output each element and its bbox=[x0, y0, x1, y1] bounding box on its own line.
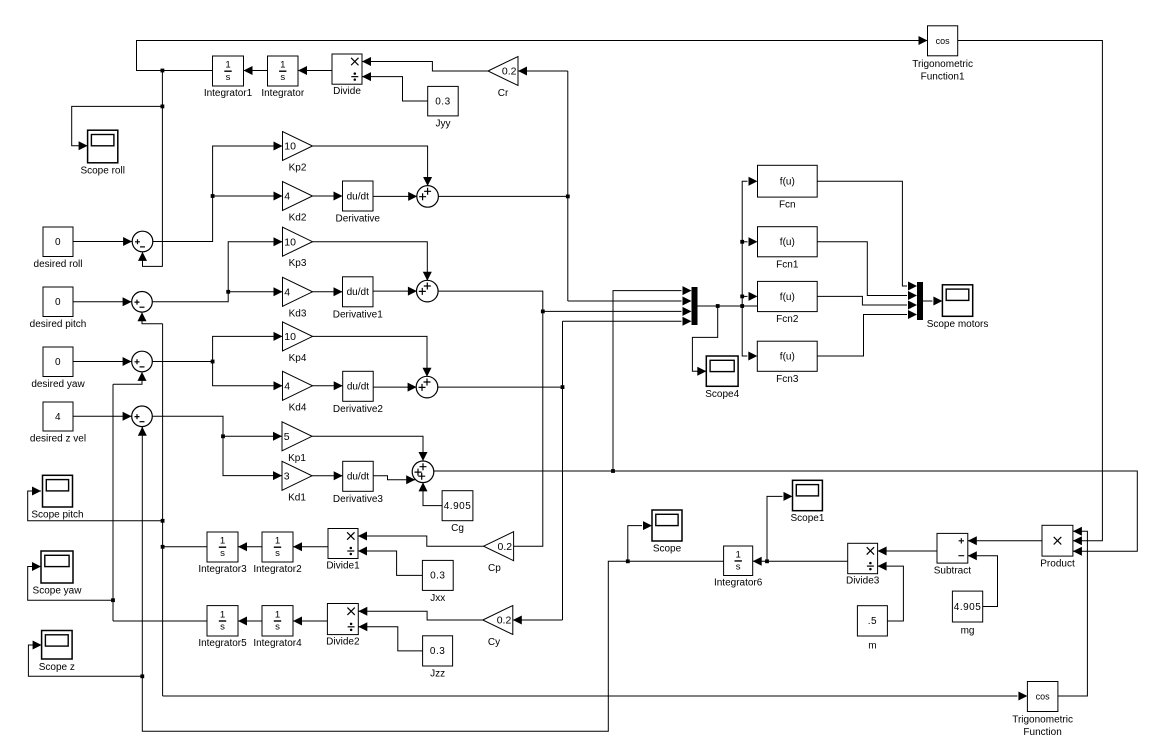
svg-text:Scope motors: Scope motors bbox=[927, 319, 989, 330]
wire roll PD output to vertical bbox=[438, 195, 568, 197]
wire thrust output to Product input 3 bbox=[433, 471, 1137, 551]
svg-text:4: 4 bbox=[55, 412, 61, 423]
wire branch to Kd2 bbox=[213, 195, 283, 197]
svg-text:Scope: Scope bbox=[653, 544, 682, 555]
svg-text:Kd2: Kd2 bbox=[289, 213, 307, 224]
wire Cg to z PD sum bottom bbox=[423, 483, 442, 506]
svg-text:Cg: Cg bbox=[451, 523, 464, 534]
svg-text:0.2: 0.2 bbox=[497, 615, 512, 627]
wire roll angle to Scope roll bbox=[72, 106, 163, 145]
gain block Kp4 10 bbox=[283, 322, 313, 364]
svg-text:Derivative3: Derivative3 bbox=[333, 494, 383, 505]
svg-text:f(u): f(u) bbox=[780, 237, 795, 248]
wire roll torque vertical bbox=[567, 71, 569, 301]
wire branch up to Scope1 bbox=[767, 496, 783, 561]
fcn block Fcn2 bbox=[758, 281, 818, 325]
svg-text:Cp: Cp bbox=[488, 563, 501, 574]
wire pitch feedback into sum bottom bbox=[142, 312, 163, 324]
wire yaw feedback into sum bottom bbox=[113, 372, 142, 384]
scope block Scope pitch bbox=[31, 475, 83, 520]
sum block yaw error bbox=[132, 351, 153, 372]
sum block yaw PD bbox=[416, 376, 438, 398]
gain block Cy 0.2 bbox=[483, 606, 513, 649]
wire Derivative2 to yaw PD sum bbox=[373, 386, 416, 388]
svg-text:1: 1 bbox=[275, 536, 280, 547]
gain block Kd4 4 bbox=[283, 371, 313, 413]
wire pitch error to Kd3/Kp3 bbox=[152, 242, 282, 302]
svg-text:Fcn3: Fcn3 bbox=[776, 374, 799, 385]
svg-text:Kd3: Kd3 bbox=[289, 308, 307, 319]
wire Integrator3 output joins pitch vertical bbox=[163, 546, 207, 548]
wire Kp4 to yaw PD sum top bbox=[313, 336, 428, 376]
svg-text:f(u): f(u) bbox=[780, 177, 795, 188]
wire yaw angle vertical bbox=[112, 384, 114, 621]
wire yaw PD output to vertical bbox=[437, 386, 562, 388]
wire Cy output to Divide2 x input bbox=[358, 611, 483, 620]
wire thrust to mux input 1 bbox=[613, 291, 682, 471]
svg-text:Jxx: Jxx bbox=[430, 593, 445, 604]
wire mux to Scope motors bbox=[923, 300, 932, 302]
svg-text:du/dt: du/dt bbox=[347, 287, 369, 298]
svg-text:desired yaw: desired yaw bbox=[31, 379, 85, 390]
svg-text:Derivative1: Derivative1 bbox=[333, 309, 383, 320]
svg-text:du/dt: du/dt bbox=[347, 382, 369, 393]
integrator block Integrator6 bbox=[714, 546, 763, 589]
wire z error to Kp1/Kd1 bbox=[152, 416, 282, 436]
svg-text:Kd4: Kd4 bbox=[289, 402, 307, 413]
svg-text:Scope1: Scope1 bbox=[790, 513, 824, 524]
wire branch down to Fcn3 bbox=[742, 306, 747, 356]
svg-text:0.3: 0.3 bbox=[430, 571, 445, 582]
gain block Kd1 3 bbox=[282, 461, 312, 503]
wire yaw error to Kp4/Kd4 bbox=[152, 361, 212, 363]
integrator block Integrator4 bbox=[253, 606, 302, 649]
sum block roll error bbox=[132, 231, 153, 252]
wire branch to Fcn1 bbox=[742, 241, 747, 243]
svg-text:4: 4 bbox=[284, 286, 290, 298]
wire mg to Subtract minus input bbox=[968, 556, 998, 607]
svg-text:Kd1: Kd1 bbox=[288, 492, 306, 503]
sum block roll PD bbox=[417, 186, 439, 208]
sum block z error bbox=[132, 406, 153, 427]
svg-text:Integrator: Integrator bbox=[261, 88, 304, 99]
svg-text:0: 0 bbox=[55, 297, 61, 308]
wire branch to Kd3 bbox=[228, 291, 282, 293]
svg-text:Scope yaw: Scope yaw bbox=[33, 586, 83, 597]
svg-text:0.2: 0.2 bbox=[502, 66, 517, 78]
svg-text:Scope roll: Scope roll bbox=[80, 165, 124, 176]
svg-text:3: 3 bbox=[284, 470, 290, 482]
wire Kp1 to z PD sum top bbox=[312, 436, 423, 461]
svg-text:4.905: 4.905 bbox=[444, 501, 472, 512]
svg-text:5: 5 bbox=[284, 431, 290, 443]
fcn block Fcn3 bbox=[757, 341, 817, 385]
wire m to Divide3 / input bbox=[878, 566, 904, 621]
wire Fcn2 to motor mux input 3 bbox=[817, 296, 907, 305]
svg-text:Function: Function bbox=[1023, 727, 1061, 738]
svg-text:Function1: Function1 bbox=[921, 72, 965, 83]
svg-text:mg: mg bbox=[961, 626, 975, 637]
svg-text:s: s bbox=[280, 72, 285, 83]
divide block Divide1 bbox=[326, 529, 360, 572]
svg-text:1: 1 bbox=[275, 609, 280, 620]
svg-text:1: 1 bbox=[220, 609, 225, 620]
constant block desired roll 0 bbox=[34, 227, 83, 270]
svg-text:desired roll: desired roll bbox=[34, 259, 83, 270]
gain block Kp3 10 bbox=[283, 227, 313, 269]
svg-text:Derivative: Derivative bbox=[336, 214, 381, 225]
constant block desired pitch 0 bbox=[30, 287, 87, 330]
svg-text:desired z vel: desired z vel bbox=[30, 434, 86, 445]
wire Integrator4 to Integrator5 bbox=[238, 620, 262, 622]
svg-text:Trigonometric: Trigonometric bbox=[1012, 715, 1073, 726]
wire yaw torque vertical bbox=[562, 321, 564, 620]
wire Fcn1 to motor mux input 2 bbox=[817, 242, 907, 296]
sum block pitch error bbox=[132, 292, 153, 313]
sum block pitch PD bbox=[417, 280, 439, 302]
wire z feedback into sum bottom bbox=[141, 427, 143, 431]
svg-text:10: 10 bbox=[284, 141, 296, 153]
mux block Mux bbox=[692, 287, 698, 325]
gain block Kd2 4 bbox=[283, 182, 313, 224]
wire branch down to Kd4 bbox=[213, 362, 283, 386]
svg-text:1: 1 bbox=[735, 549, 740, 560]
wire Kd3 to Derivative1 bbox=[313, 291, 343, 293]
wire Kp2 to roll PD sum top bbox=[313, 146, 428, 186]
constant block desired z vel 4 bbox=[30, 402, 86, 445]
gain block Cp 0.2 bbox=[484, 532, 514, 574]
wire roll feedback vertical down to roll sum bbox=[143, 71, 163, 267]
constant block m .5 bbox=[857, 606, 887, 652]
svg-text:1: 1 bbox=[225, 60, 230, 71]
svg-text:4: 4 bbox=[284, 191, 290, 203]
integrator block Integrator3 bbox=[198, 532, 247, 575]
derivative block Derivative bbox=[336, 181, 381, 225]
mux output wire bbox=[698, 305, 758, 307]
svg-text:Integrator5: Integrator5 bbox=[198, 638, 247, 649]
svg-text:desired pitch: desired pitch bbox=[30, 319, 87, 330]
integrator block Integrator2 bbox=[253, 532, 302, 575]
svg-text:1: 1 bbox=[280, 60, 285, 71]
fcn block Fcn1 bbox=[758, 227, 818, 271]
svg-text:Kp2: Kp2 bbox=[289, 163, 307, 174]
wire Cp output to Divide1 x input bbox=[358, 536, 484, 546]
mux block motors bbox=[917, 282, 923, 320]
wire Fcn3 to motor mux input 4 bbox=[817, 315, 907, 357]
wire Fcn to motor mux input 1 bbox=[817, 181, 907, 286]
svg-text:Trigonometric: Trigonometric bbox=[912, 59, 973, 70]
gain block Kp1 5 bbox=[282, 422, 312, 464]
divide block Divide3 bbox=[846, 543, 880, 586]
wire Divide1 to Integrator2 bbox=[293, 546, 328, 548]
wire Kp3 to pitch PD sum top bbox=[313, 242, 428, 281]
svg-text:0.3: 0.3 bbox=[435, 96, 450, 107]
wire Kd4 to Derivative2 bbox=[313, 385, 343, 387]
svg-text:f(u): f(u) bbox=[780, 352, 795, 363]
wire branch to mux input 3 bbox=[543, 310, 682, 312]
svg-text:Integrator2: Integrator2 bbox=[253, 564, 302, 575]
svg-text:Integrator6: Integrator6 bbox=[714, 578, 763, 589]
svg-text:du/dt: du/dt bbox=[347, 472, 369, 483]
wire Divide2 to Integrator4 bbox=[293, 620, 327, 622]
svg-text:s: s bbox=[736, 562, 741, 573]
scope block Scope z bbox=[39, 631, 75, 674]
svg-text:s: s bbox=[275, 622, 280, 633]
wire Integrator6 output down and left to z feedback bbox=[142, 427, 723, 731]
svg-text:Jzz: Jzz bbox=[430, 669, 445, 680]
svg-text:Divide2: Divide2 bbox=[326, 637, 360, 648]
scope block Scope bbox=[652, 510, 682, 555]
svg-text:cos: cos bbox=[936, 36, 951, 46]
constant block Cg 4.905 bbox=[442, 491, 473, 535]
gain block Kd3 4 bbox=[283, 277, 313, 319]
wire yaw torque to mux input 4 bbox=[563, 320, 682, 322]
svg-text:Subtract: Subtract bbox=[934, 566, 971, 577]
wire Jzz to Divide2 / input bbox=[358, 627, 422, 651]
wire Product to Subtract plus input bbox=[968, 540, 1042, 542]
svg-text:s: s bbox=[226, 72, 231, 83]
svg-text:Divide3: Divide3 bbox=[846, 576, 880, 587]
derivative block Derivative3 bbox=[333, 461, 383, 505]
svg-text:Integrator3: Integrator3 bbox=[198, 564, 247, 575]
gain block Kp2 10 bbox=[283, 132, 313, 174]
divide block Divide bbox=[332, 54, 362, 97]
wire branch to Scope z bbox=[28, 645, 142, 676]
scope block Scope1 bbox=[790, 480, 824, 524]
trigonometric block Trigonometric Function1 cos bbox=[912, 26, 973, 83]
svg-text:Integrator1: Integrator1 bbox=[204, 88, 253, 99]
svg-text:Derivative2: Derivative2 bbox=[333, 404, 383, 415]
svg-text:Scope4: Scope4 bbox=[705, 389, 739, 400]
wire Integrator to Integrator1 bbox=[244, 70, 268, 72]
wire control bus vertical feeding Fcn blocks bbox=[742, 181, 747, 306]
wire pitch angle vertical bbox=[162, 324, 164, 696]
junction on Integrator1 output bbox=[161, 69, 165, 73]
scope block Scope roll bbox=[80, 130, 124, 176]
svg-text:Cr: Cr bbox=[498, 88, 509, 99]
wire desired yaw to sum bbox=[73, 361, 132, 363]
wire branch down to Scope4 bbox=[692, 306, 717, 371]
wire pitch angle to Trigonometric Function bbox=[163, 695, 1018, 697]
wire cos output up to Product input 2 bbox=[1058, 531, 1088, 696]
wire Kd2 to Derivative bbox=[313, 195, 343, 197]
svg-text:.5: .5 bbox=[868, 616, 877, 627]
wire Integrator2 to Integrator3 bbox=[238, 546, 262, 548]
scope block Scope yaw bbox=[33, 551, 83, 597]
svg-text:Divide: Divide bbox=[333, 86, 361, 97]
svg-text:du/dt: du/dt bbox=[347, 191, 369, 202]
subtract block Subtract bbox=[934, 533, 971, 576]
wire Kd1 to Derivative3 bbox=[312, 475, 343, 477]
wire roll error to Kp2/Kd2 bbox=[153, 146, 283, 242]
svg-text:Fcn: Fcn bbox=[779, 200, 796, 211]
wire desired pitch to sum bbox=[73, 301, 132, 303]
constant block desired yaw 0 bbox=[31, 347, 85, 390]
integrator I1 output wire to top + corner bbox=[137, 41, 928, 71]
svg-text:s: s bbox=[220, 622, 225, 633]
wire yaw torque to Cy bbox=[513, 619, 563, 621]
svg-text:Cy: Cy bbox=[488, 637, 500, 648]
svg-text:s: s bbox=[220, 548, 225, 559]
wire cos1 output down right side to Product input 1 bbox=[958, 41, 1103, 541]
svg-text:cos: cos bbox=[1036, 692, 1051, 702]
wire branch up to Kp4 bbox=[213, 336, 283, 361]
scope block Scope motors bbox=[927, 285, 989, 330]
integrator block Integrator5 bbox=[198, 606, 247, 649]
svg-text:Product: Product bbox=[1040, 559, 1075, 570]
wire branch down to Kd1 bbox=[223, 436, 282, 475]
divide block Divide2 bbox=[326, 604, 360, 648]
wire Derivative3 to z PD sum with jog bbox=[373, 476, 415, 480]
svg-text:Divide1: Divide1 bbox=[326, 561, 360, 572]
svg-text:4.905: 4.905 bbox=[954, 602, 982, 613]
svg-text:m: m bbox=[868, 641, 876, 652]
svg-text:Kp1: Kp1 bbox=[288, 453, 306, 464]
integrator block Integrator1 bbox=[204, 56, 253, 99]
wire Divide to Integrator bbox=[298, 70, 332, 72]
wire from roll torque vertical into Cr bbox=[518, 70, 568, 72]
derivative block Derivative2 bbox=[333, 371, 383, 415]
wire pitch PD output down to Cp and mux input 3 bbox=[438, 291, 543, 546]
svg-text:Scope pitch: Scope pitch bbox=[31, 510, 83, 521]
wire to Scope yaw bbox=[28, 567, 113, 601]
svg-text:f(u): f(u) bbox=[780, 292, 795, 303]
constant block Jzz 0.3 bbox=[423, 636, 453, 680]
svg-text:1: 1 bbox=[220, 536, 225, 547]
wire branch to Fcn2 bbox=[749, 292, 758, 301]
wire Integrator5 output to yaw vertical bbox=[113, 620, 207, 622]
svg-text:Integrator4: Integrator4 bbox=[253, 638, 302, 649]
wire Divide3 to Integrator6 bbox=[753, 560, 848, 562]
wire z velocity to Scope bbox=[628, 526, 642, 562]
wire to Scope pitch bbox=[28, 491, 163, 521]
wire Derivative1 to pitch PD sum bbox=[373, 290, 417, 292]
svg-text:0: 0 bbox=[55, 357, 61, 368]
svg-text:Jyy: Jyy bbox=[435, 118, 450, 129]
svg-text:0: 0 bbox=[55, 237, 61, 248]
arrow into Trigonometric Function1 bbox=[919, 36, 928, 45]
wire desired roll to sum bbox=[73, 241, 132, 243]
svg-text:Fcn1: Fcn1 bbox=[776, 259, 799, 270]
constant block mg 4.905 bbox=[952, 591, 982, 636]
svg-text:s: s bbox=[275, 548, 280, 559]
derivative block Derivative1 bbox=[333, 277, 383, 321]
wire Subtract to Divide3 x input bbox=[878, 550, 937, 552]
svg-text:Scope z: Scope z bbox=[39, 662, 75, 673]
wire Jxx to Divide1 / input bbox=[358, 551, 422, 575]
constant block Jxx 0.3 bbox=[422, 560, 453, 604]
svg-text:10: 10 bbox=[284, 236, 296, 248]
sum block z PD thrust bbox=[412, 461, 434, 483]
trigonometric block Trigonometric Function cos bbox=[1012, 682, 1073, 739]
svg-text:10: 10 bbox=[284, 331, 296, 343]
scope block Scope4 bbox=[705, 356, 739, 400]
integrator block Integrator bbox=[261, 56, 304, 99]
constant block Jyy 0.3 bbox=[428, 86, 459, 129]
svg-text:Fcn2: Fcn2 bbox=[776, 314, 799, 325]
fcn block Fcn bbox=[758, 165, 818, 210]
product block Product bbox=[1040, 525, 1075, 569]
wire Cr output to Divide x input bbox=[362, 62, 488, 72]
svg-text:0.3: 0.3 bbox=[430, 646, 445, 657]
svg-text:Kp3: Kp3 bbox=[289, 258, 307, 269]
svg-text:0.2: 0.2 bbox=[497, 541, 512, 553]
gain block Cr 0.2 bbox=[488, 57, 518, 100]
wire desired z vel to sum bbox=[73, 415, 132, 417]
wire Jyy to Divide / input bbox=[362, 77, 428, 101]
svg-text:4: 4 bbox=[284, 380, 290, 392]
svg-text:Kp4: Kp4 bbox=[289, 353, 307, 364]
wire Derivative to roll PD sum bbox=[373, 195, 417, 197]
wire roll torque to mux input 2 bbox=[568, 300, 682, 302]
